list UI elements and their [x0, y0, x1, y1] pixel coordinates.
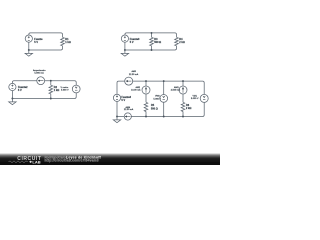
svg-text:22.50 mA: 22.50 mA	[124, 108, 134, 111]
voltmeter V metro 5.000 V	[72, 85, 80, 93]
wire: circuit4 bottom bus right	[131, 102, 204, 116]
wire: circuit1 top rail	[29, 33, 63, 37]
wire: circuit4 bottom bus left	[117, 101, 124, 116]
ammeter AM3 2.500 mA	[179, 86, 187, 94]
svg-text:1 kΩ: 1 kΩ	[54, 89, 59, 92]
voltage source Fuente2 5 V	[9, 83, 16, 90]
voltage source Fuente0 5 V	[121, 35, 128, 42]
wire: VM0 branch	[163, 81, 165, 116]
node: AM3 branch bottom junction	[182, 116, 184, 118]
svg-text:5.000 V: 5.000 V	[153, 98, 161, 100]
svg-text:2 kΩ: 2 kΩ	[179, 41, 184, 44]
wire: circuit4 top bus right	[133, 81, 205, 94]
wire: circuit4 top bus left	[117, 81, 125, 94]
svg-text:AM3: AM3	[174, 86, 179, 89]
node: R3 top junction	[151, 32, 153, 34]
wire: AM2-R5 branch	[145, 81, 147, 116]
svg-text:5 V: 5 V	[130, 41, 134, 44]
svg-text:500 Ω: 500 Ω	[154, 41, 161, 44]
voltage source Fuente3 5 V	[113, 94, 120, 101]
svg-text:1 kΩ: 1 kΩ	[65, 41, 70, 44]
wire: circuit3 top rail left	[12, 81, 36, 84]
svg-text:5 V: 5 V	[121, 99, 125, 102]
ground: circuit2	[124, 50, 126, 53]
node: AM2 branch top junction	[145, 80, 147, 82]
svg-text:5 V: 5 V	[18, 89, 22, 92]
node: circuit3 ground junction	[11, 98, 13, 100]
wire: circuit2 bottom rail	[125, 42, 177, 50]
svg-text:LAB: LAB	[32, 159, 40, 164]
ground: circuit3	[11, 99, 13, 102]
node: VM0 branch top junction	[163, 80, 165, 82]
node: AM2 branch bottom junction	[145, 116, 147, 118]
svg-text:2.500 mA: 2.500 mA	[171, 88, 181, 91]
resistor R1	[61, 37, 65, 46]
resistor R3 500 Ohm	[150, 37, 154, 46]
svg-text:2 kΩ: 2 kΩ	[186, 107, 191, 110]
node: R2 bottom junction	[50, 98, 52, 100]
CircuitLab logo diamond	[29, 161, 32, 163]
ammeter AM4 22.50 mA	[124, 113, 131, 120]
footer bar	[0, 153, 220, 165]
wire: circuit3 top rail right	[45, 81, 77, 85]
svg-text:5 V: 5 V	[34, 41, 38, 44]
CircuitLab logo zigzag	[9, 161, 28, 163]
svg-text:http://circuitlab.com/c7t64vam: http://circuitlab.com/c7t64vam3	[45, 159, 99, 163]
resistor R2 1 kOhm	[49, 85, 53, 94]
svg-text:AM0: AM0	[131, 70, 136, 73]
wire: circuit3 bottom rail	[12, 91, 76, 99]
svg-text:V metro: V metro	[61, 86, 69, 89]
node: R3 bottom junction	[151, 49, 153, 51]
voltmeter VM1 5.000 V	[200, 94, 208, 102]
node: circuit2 ground junction	[124, 49, 126, 51]
svg-text:5.000 V: 5.000 V	[61, 90, 69, 92]
svg-text:5.000 mA: 5.000 mA	[34, 71, 44, 74]
node: VM0 branch bottom junction	[163, 116, 165, 118]
node: AM3 branch top junction	[182, 80, 184, 82]
svg-text:500 Ω: 500 Ω	[151, 107, 158, 110]
ammeter AM0 22.50 mA	[125, 77, 133, 85]
node: R2 top junction	[50, 80, 52, 82]
svg-text:5.000 V: 5.000 V	[191, 98, 199, 100]
svg-text:10.00 mA: 10.00 mA	[131, 88, 141, 91]
voltmeter VM0 5.000 V	[160, 95, 168, 103]
wire: R3 branch	[151, 33, 153, 50]
ammeter Amperimetro 5.000 mA	[37, 77, 45, 85]
wire: circuit2 top rail	[125, 33, 177, 37]
wire: R2 branch	[50, 81, 52, 99]
ground: circuit4	[116, 117, 118, 120]
wire: AM3-R6 branch	[182, 81, 184, 116]
resistor R4 2 kOhm	[175, 37, 179, 46]
wire: circuit1 bottom rail	[29, 42, 63, 50]
resistor R5 500 Ohm	[144, 102, 148, 111]
resistor R6 2 kOhm	[181, 102, 185, 111]
node: circuit1 ground junction	[28, 49, 30, 51]
node: circuit4 ground junction	[116, 116, 118, 118]
voltage source Fuente 5 V	[25, 35, 32, 42]
ground: circuit1	[28, 50, 30, 53]
svg-text:22.50 mA: 22.50 mA	[129, 73, 139, 76]
ammeter AM2 10.00 mA	[142, 86, 150, 94]
